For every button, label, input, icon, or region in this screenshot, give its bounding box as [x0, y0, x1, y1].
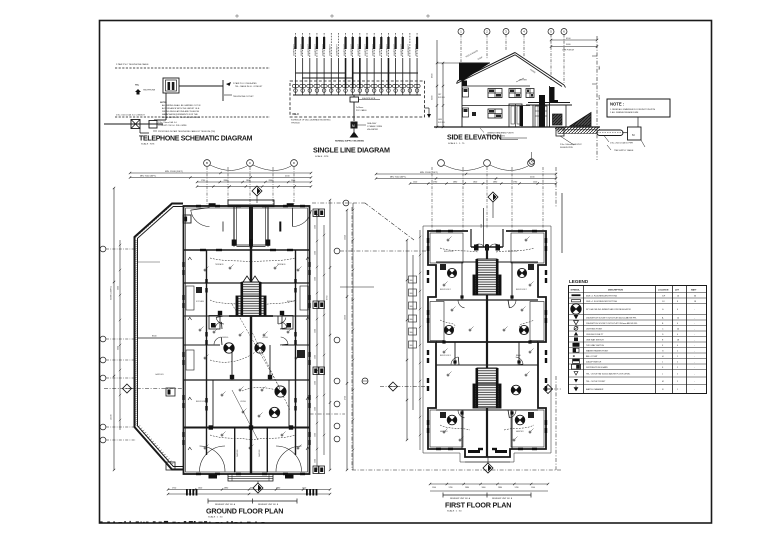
- svg-text:BEDROOM: BEDROOM: [196, 401, 206, 403]
- svg-text:MIN. 15240 (50FT.): MIN. 15240 (50FT.): [165, 171, 183, 173]
- svg-text:MIN. 15240 (50FT.): MIN. 15240 (50FT.): [420, 172, 438, 174]
- incoming supply black triangle: [350, 132, 359, 138]
- svg-text:ALL WIRING SHALL BE CARRIED OU: ALL WIRING SHALL BE CARRIED OUT IN: [162, 104, 201, 107]
- svg-text:TEL. CABLE IN G.I. CONDUIT: TEL. CABLE IN G.I. CONDUIT: [235, 85, 263, 88]
- svg-text:1780: 1780: [449, 487, 453, 489]
- svg-text:2880: 2880: [465, 487, 469, 489]
- svg-text:B: B: [206, 161, 208, 165]
- gf exterior window dark ticks: [182, 262, 184, 267]
- gf section circle marker: [362, 378, 368, 384]
- svg-text:1500: 1500: [432, 487, 436, 489]
- supply leader texts: [604, 136, 609, 143]
- svg-text:100A 240V: 100A 240V: [367, 122, 377, 125]
- wire DP to riser drop: [139, 129, 141, 134]
- svg-text:SCALE : NTS: SCALE : NTS: [315, 155, 329, 158]
- svg-text:SCALE : 1 : 50: SCALE : 1 : 50: [208, 516, 223, 519]
- supply capsule conduit: [597, 130, 623, 136]
- svg-text:2: 2: [677, 381, 678, 383]
- svg-text:SCHEDULE OF DB-C (SURFACE MOUN: SCHEDULE OF DB-C (SURFACE MOUNTED): [291, 119, 331, 122]
- svg-text:kWh METER: kWh METER: [367, 129, 379, 131]
- 2nd storey windows: [488, 89, 502, 98]
- ff bottom bracket lines: [443, 494, 531, 496]
- svg-text:2: 2: [677, 361, 678, 363]
- svg-text:1800: 1800: [473, 181, 477, 183]
- svg-text:1500: 1500: [533, 181, 537, 183]
- svg-text:40A DPN MCB: 40A DPN MCB: [362, 97, 376, 100]
- svg-text:6: 6: [677, 323, 678, 325]
- svg-text:TWO WAY SWITCH: TWO WAY SWITCH: [586, 344, 605, 347]
- elevation ground line: [434, 126, 600, 128]
- meter panel box: [628, 127, 642, 140]
- svg-text:DESCRIPTION: DESCRIPTION: [608, 290, 623, 292]
- gf left section diamond: [123, 384, 132, 393]
- svg-text:1780: 1780: [201, 180, 205, 182]
- gf kitchen fixtures left: [186, 286, 194, 310]
- incoming telephone line wire: [104, 123, 163, 125]
- gf interior door frame blobs: [209, 425, 213, 429]
- gf bathrooms beside stairs: [209, 316, 220, 330]
- svg-text:NORMAL SUPPLY INCOMING: NORMAL SUPPLY INCOMING: [335, 140, 364, 143]
- svg-text:1500: 1500: [302, 487, 306, 489]
- svg-text:1500: 1500: [315, 251, 317, 255]
- svg-text:CAR PORCH: CAR PORCH: [562, 49, 575, 52]
- svg-text:6: 6: [677, 309, 678, 311]
- gf bottom dimension lines: [168, 489, 330, 491]
- ff left section diamond: [389, 382, 398, 391]
- svg-text:1750: 1750: [172, 487, 176, 489]
- svg-text:MASTER: MASTER: [516, 430, 524, 433]
- svg-text:1800: 1800: [482, 487, 486, 489]
- svg-text:RESIDENT UNIT NO. B: RESIDENT UNIT NO. B: [258, 504, 279, 506]
- ff wiring dashed runs: [440, 248, 478, 252]
- svg-text:LIVING: LIVING: [262, 337, 268, 339]
- ff interior door arcs: [458, 300, 465, 308]
- svg-text:TELEPHONE SCHEMATIC DIAGRAM: TELEPHONE SCHEMATIC DIAGRAM: [139, 136, 253, 143]
- svg-text:GROUND FLOOR PLAN: GROUND FLOOR PLAN: [206, 507, 283, 516]
- svg-text:CEILING ROSE PT: CEILING ROSE PT: [586, 334, 604, 336]
- svg-text:DINING: DINING: [222, 337, 229, 339]
- svg-text:BEDROOM 3: BEDROOM 3: [440, 355, 451, 357]
- svg-text:LIGHTING PT: LIGHTING PT: [329, 43, 331, 56]
- svg-text:L: L: [662, 373, 663, 375]
- gf diagonal cable runs: [232, 304, 280, 388]
- gf garden boundary wall: [135, 204, 184, 470]
- svg-text:2. ALL DIMENSIONS ARE IN MM: 2. ALL DIMENSIONS ARE IN MM: [610, 111, 639, 114]
- roof dark gable fill: [459, 63, 490, 81]
- svg-text:NOTE :: NOTE :: [610, 102, 624, 107]
- telephone junction box: [163, 78, 179, 93]
- main switch wire down: [353, 102, 355, 121]
- ff door frame blobs: [460, 295, 463, 298]
- svg-text:1 No. 25mm DIA G.I PIPE: 1 No. 25mm DIA G.I PIPE: [610, 142, 634, 145]
- svg-text:2x16mm: 2x16mm: [356, 107, 364, 109]
- svg-text:BEDROOM: BEDROOM: [444, 251, 454, 253]
- svg-text:1500: 1500: [315, 459, 317, 463]
- gf wiring texture tiny symbols: [204, 269, 206, 271]
- ff party wall: [486, 244, 488, 457]
- wire note box to meter box: [637, 117, 639, 127]
- svg-text:2: 2: [677, 367, 678, 369]
- busbar: [293, 94, 421, 96]
- ff top grid bubbles: [438, 160, 445, 167]
- svg-text:1500: 1500: [531, 487, 535, 489]
- gf right dimension line: [329, 200, 331, 470]
- svg-text:ACCORDANCE WITH THE LATEST I.E: ACCORDANCE WITH THE LATEST I.E.E.: [162, 107, 200, 110]
- svg-text:2: 2: [677, 356, 678, 358]
- svg-text:SLEEVE PIPE: SLEEVE PIPE: [560, 147, 574, 149]
- ff stair core lower: [477, 368, 497, 384]
- eave bracket left: [462, 81, 467, 87]
- svg-text:PROPOSED 20 PAIR TELEPHONE CAB: PROPOSED 20 PAIR TELEPHONE CABLE BY TELE…: [158, 130, 215, 133]
- svg-text:1780: 1780: [433, 181, 437, 183]
- svg-text:WIRING REGULATIONS AND TELEKOM: WIRING REGULATIONS AND TELEKOM: [162, 110, 199, 113]
- gf wiring dashed runs: [210, 258, 251, 262]
- svg-text:18: 18: [677, 339, 679, 341]
- svg-text:PVC CABLE: PVC CABLE: [356, 109, 367, 112]
- svg-text:TEL. OUTLET POINT: TEL. OUTLET POINT: [586, 381, 606, 383]
- svg-text:TERRACE: TERRACE: [215, 263, 224, 266]
- main door: [509, 104, 522, 127]
- arrow to TBB with note text: [226, 82, 231, 86]
- gf north diamond symbol: [252, 186, 262, 196]
- right vertical boundary dash line: [596, 36, 598, 160]
- db dashed enclosure DB-C: [290, 81, 425, 117]
- svg-text:5000: 5000: [118, 286, 120, 290]
- gf interior door arcs: [216, 317, 224, 324]
- svg-text:DB-C: DB-C: [293, 112, 300, 116]
- svg-text:M: M: [352, 124, 355, 128]
- svg-text:EARTH CHAMBER: EARTH CHAMBER: [586, 388, 604, 391]
- svg-text:GRD: GRD: [438, 119, 443, 121]
- svg-text:1 PHASE 2 WIRE: 1 PHASE 2 WIRE: [367, 125, 383, 128]
- svg-text:13A SWITCH SOCKET OUTLET AT 13: 13A SWITCH SOCKET OUTLET AT 1350mm ABOVE…: [586, 322, 639, 325]
- ground hatch under elevation: [555, 127, 600, 131]
- ff interior vertical walls: [461, 262, 463, 300]
- earth arrow right side: [425, 107, 430, 109]
- telephone riser line: [222, 80, 224, 101]
- svg-text:GARDEN: GARDEN: [236, 449, 239, 457]
- ff bottom dimension lines: [430, 483, 548, 485]
- ff right section diamond: [544, 385, 553, 394]
- svg-text:GARDEN: GARDEN: [155, 373, 164, 376]
- svg-text:SINGLE LINE DIAGRAM: SINGLE LINE DIAGRAM: [313, 146, 390, 155]
- svg-text:2880: 2880: [224, 180, 228, 182]
- svg-text:GARDEN: GARDEN: [258, 449, 261, 457]
- roof: [458, 53, 516, 82]
- svg-text:MALAYSIA REQUIREMENTS FOR THE: MALAYSIA REQUIREMENTS FOR THE: [162, 113, 198, 116]
- svg-text:SIDE ELEVATION: SIDE ELEVATION: [447, 135, 502, 142]
- main switch rectangle: [353, 95, 355, 97]
- gf top wall dark window blocks: [209, 203, 216, 206]
- gf entrance canopy top: [228, 200, 274, 207]
- wire junction-box down: [165, 93, 167, 120]
- ff building outline with corner wings: [428, 231, 546, 457]
- svg-text:12190: 12190: [111, 414, 113, 420]
- ff grid drop dash lines: [431, 167, 433, 231]
- svg-text:LIGHTING PT: LIGHTING PT: [337, 43, 339, 56]
- svg-text:RESIDENT UNIT NO. A: RESIDENT UNIT NO. A: [450, 497, 471, 500]
- svg-text:8: 8: [677, 301, 678, 303]
- gf grid drop dash lines: [206, 167, 208, 206]
- svg-text:FLR LVL: FLR LVL: [438, 122, 445, 124]
- gf bottom rooms double door arcs: [200, 446, 226, 472]
- mcb rows inside db: [292, 84, 295, 87]
- ff bottom porch dark bars: [468, 450, 480, 453]
- svg-text:TNB SUPPLY CABLE: TNB SUPPLY CABLE: [614, 149, 634, 152]
- ff roof overhang thin outline: [423, 226, 551, 462]
- svg-text:ONE WAY SWITCH: ONE WAY SWITCH: [586, 338, 604, 341]
- svg-text:1: 1: [677, 389, 678, 391]
- svg-text:1500: 1500: [315, 407, 317, 411]
- svg-text:300: 300: [410, 332, 413, 334]
- gf mid fence line: [138, 337, 184, 339]
- svg-text:1500: 1500: [315, 277, 317, 281]
- svg-text:300: 300: [410, 345, 413, 347]
- gf bottom porch steps: [228, 474, 273, 481]
- svg-text:DISTRIBUTION BOARD: DISTRIBUTION BOARD: [586, 366, 608, 369]
- single line diagram: feeder circuits group: [295, 33, 297, 58]
- gf top dimension lines: [130, 172, 311, 174]
- svg-text:1600: 1600: [198, 487, 202, 489]
- ff center section leader line: [483, 208, 485, 247]
- gf party wall center: [250, 206, 252, 474]
- svg-text:SCALE 1 : 1 : 75: SCALE 1 : 1 : 75: [448, 142, 465, 145]
- gf lobby corridor walls: [233, 207, 235, 247]
- svg-text:1500: 1500: [315, 381, 317, 385]
- svg-text:4720: 4720: [345, 396, 347, 400]
- svg-text:LIVING: LIVING: [240, 401, 246, 403]
- svg-text:NOTE :: NOTE :: [160, 102, 167, 104]
- porch left dark post: [520, 106, 524, 126]
- svg-text:SYMBOL: SYMBOL: [571, 290, 581, 292]
- ground hatched strip right: [570, 113, 591, 127]
- svg-text:36: 36: [694, 295, 696, 297]
- svg-text:INSTALLATION OF TELEPHONE WIRI: INSTALLATION OF TELEPHONE WIRING: [162, 116, 200, 119]
- svg-text:TEL: TEL: [135, 85, 140, 87]
- gf bottom wall windows: [209, 474, 218, 478]
- porch dark column: [539, 95, 545, 127]
- 1st storey window: [488, 109, 502, 118]
- svg-text:MIN. 9140 (30FT.): MIN. 9140 (30FT.): [140, 175, 156, 177]
- ground floor: top grid bubbles: [204, 160, 211, 167]
- svg-text:1500: 1500: [315, 355, 317, 359]
- svg-text:1500: 1500: [315, 303, 317, 307]
- svg-text:36W x 1 FLUORESCENT FITTING: 36W x 1 FLUORESCENT FITTING: [586, 295, 618, 297]
- gf right grid bubbles: [334, 248, 340, 254]
- svg-text:MIN. 9140 (30FT.): MIN. 9140 (30FT.): [390, 176, 406, 178]
- svg-text:SCALE : 1 : 50: SCALE : 1 : 50: [447, 510, 462, 513]
- gf right side wall labels: [313, 209, 319, 217]
- svg-text:1500: 1500: [413, 181, 417, 183]
- scan dirt bottom edge: [100, 521, 103, 522]
- feeder tie bars: [296, 72, 346, 74]
- svg-text:2880: 2880: [493, 181, 497, 183]
- house outline left wall: [461, 63, 463, 127]
- ff ceiling fans: [447, 268, 456, 277]
- gf terrace inner wall bar: [279, 222, 281, 232]
- svg-text:FIRST FLOOR PLAN: FIRST FLOOR PLAN: [445, 501, 511, 510]
- svg-text:BEDROOM 2: BEDROOM 2: [516, 289, 527, 291]
- telephone lower dashed boundary line: [115, 116, 270, 118]
- svg-text:WATER HEATER POINT: WATER HEATER POINT: [586, 349, 609, 352]
- svg-text:2: 2: [677, 373, 678, 375]
- svg-text:3000: 3000: [118, 346, 120, 350]
- ff exterior window dark ticks: [427, 238, 429, 243]
- ff bath fixtures: [440, 264, 446, 270]
- NOTE box: [607, 99, 670, 117]
- svg-text:20A DP SWITCH: 20A DP SWITCH: [586, 360, 602, 363]
- svg-text:10520: 10520: [345, 315, 347, 320]
- svg-text:2 PAIR P.V.C. INSULATED: 2 PAIR P.V.C. INSULATED: [233, 82, 257, 85]
- svg-text:1800: 1800: [246, 180, 250, 182]
- svg-text:1. REFER ALL DRAWINGS IN CONJU: 1. REFER ALL DRAWINGS IN CONJUNCTION WIT…: [610, 108, 656, 111]
- svg-text:J: J: [662, 361, 663, 363]
- ff left dim stack with labels: [406, 240, 408, 440]
- border frame: [100, 21, 712, 524]
- svg-text:1780: 1780: [515, 487, 519, 489]
- svg-text:300: 300: [410, 293, 413, 295]
- svg-text:BEDROOM 2: BEDROOM 2: [440, 289, 451, 291]
- svg-text:BEDROOM: BEDROOM: [287, 301, 297, 303]
- meter leader text: [358, 124, 367, 126]
- svg-text:FLR LVL: FLR LVL: [438, 97, 445, 99]
- svg-text:2880: 2880: [269, 180, 273, 182]
- svg-text:2880: 2880: [498, 487, 502, 489]
- svg-text:RESIDENT UNIT NO. A: RESIDENT UNIT NO. A: [215, 503, 236, 506]
- svg-text:BELL POINT: BELL POINT: [586, 356, 598, 358]
- crossed junction box: [131, 120, 140, 129]
- gf bottom diamond: [253, 483, 263, 493]
- wire capsule to meter box: [623, 132, 628, 134]
- margin specks: [236, 15, 238, 17]
- hatched service trench: [558, 130, 597, 134]
- gf left dimension line: [113, 188, 115, 470]
- svg-text:13A SWITCH SOCKET OUTLET AT 30: 13A SWITCH SOCKET OUTLET AT 300mm ABOVE …: [586, 316, 637, 319]
- svg-text:4: 4: [677, 345, 678, 347]
- gf top door arcs: [191, 210, 210, 226]
- svg-text:2 PAIR P.V.C TELEPHONE CABLE: 2 PAIR P.V.C TELEPHONE CABLE: [116, 63, 149, 66]
- svg-text:BEDROOM: BEDROOM: [508, 251, 518, 253]
- svg-text:LIGHTING PT: LIGHTING PT: [408, 43, 410, 56]
- svg-text:18: 18: [694, 301, 696, 303]
- gf stair core: [242, 282, 260, 296]
- svg-text:14: 14: [677, 317, 679, 319]
- porch plinth crosshatch block: [553, 114, 563, 125]
- svg-text:4: 4: [677, 334, 678, 336]
- ff left boundary dim line and bubble: [346, 210, 348, 470]
- svg-text:LIGHTING POINT: LIGHTING POINT: [586, 328, 603, 330]
- svg-text:2 No. 100mm DIA UPVC: 2 No. 100mm DIA UPVC: [560, 143, 582, 146]
- svg-text:15240: 15240: [345, 235, 347, 240]
- legend symbol glyphs: [572, 294, 581, 296]
- ff top dimension lines: [376, 173, 556, 175]
- gf interior horizontal walls: [184, 282, 310, 284]
- legend table frame: [569, 286, 707, 394]
- svg-text:BATH: BATH: [516, 354, 521, 357]
- kWh meter black square: [351, 122, 358, 129]
- right wall dark vent: [550, 87, 555, 100]
- svg-text:GATE: GATE: [598, 94, 601, 100]
- svg-text:TELEPHONE: TELEPHONE: [143, 90, 156, 92]
- svg-text:1 No. 15mm DIA. G.I.: 1 No. 15mm DIA. G.I.: [158, 121, 178, 124]
- svg-text:2880: 2880: [224, 487, 228, 489]
- svg-text:TPN MCB: TPN MCB: [291, 123, 300, 125]
- svg-text:300: 300: [410, 319, 413, 321]
- ff stair core upper: [477, 259, 497, 275]
- gf building outer walls: [184, 206, 310, 474]
- gf bottom bracket line: [208, 500, 297, 502]
- svg-text:1500: 1500: [291, 180, 295, 182]
- gf top porch recess walls: [184, 249, 310, 251]
- ff wing inner borders: [430, 233, 463, 263]
- svg-text:1780: 1780: [513, 181, 517, 183]
- gf ceiling fans: [255, 343, 265, 353]
- svg-text:300: 300: [410, 306, 413, 308]
- ff interior horizontal walls: [436, 261, 538, 263]
- svg-text:CONDUIT C/W G.I. PULL WIRE: CONDUIT C/W G.I. PULL WIRE: [158, 125, 187, 127]
- ff top center recessed entry: [468, 229, 506, 247]
- left dimension column: [436, 40, 438, 127]
- gf left grid bubbles: [100, 246, 106, 252]
- gf right dim text column: [352, 203, 354, 470]
- svg-text:1500: 1500: [315, 433, 317, 437]
- svg-text:2880: 2880: [276, 487, 280, 489]
- svg-text:24: 24: [677, 328, 679, 330]
- gf bath fixtures right: [300, 286, 308, 310]
- side elevation: grid bubbles: [458, 29, 464, 35]
- svg-text:1500: 1500: [315, 225, 317, 229]
- svg-text:30480 (100FT.): 30480 (100FT.): [111, 286, 113, 300]
- wire junction-box to riser: [179, 85, 223, 87]
- small distribution point box DP: [149, 121, 157, 129]
- svg-text:1500: 1500: [315, 329, 317, 333]
- gf switch socket ticks inner walls: [188, 257, 192, 260]
- ff north diamond: [488, 192, 498, 202]
- gf interior vertical walls: [234, 428, 236, 473]
- svg-text:18W x 1 FLUORESCENT FITTING: 18W x 1 FLUORESCENT FITTING: [586, 301, 618, 303]
- svg-text:TELEPHONE OUTLET: TELEPHONE OUTLET: [233, 96, 254, 98]
- right dimension lines: [551, 39, 597, 41]
- ff wiring texture tiny symbols: [447, 239, 449, 241]
- svg-text:TEL. OUTLET AT 300mm ABOVE FLO: TEL. OUTLET AT 300mm ABOVE FLOOR LEVEL: [586, 372, 631, 375]
- svg-text:56″ DIA CEILING SWEEP FAN C/W: 56″ DIA CEILING SWEEP FAN C/W REGULATOR: [586, 308, 631, 311]
- svg-text:RESIDENT UNIT NO. B: RESIDENT UNIT NO. B: [492, 498, 513, 500]
- svg-text:300: 300: [410, 280, 413, 282]
- svg-text:2 No. 15mm DIA. G.I. CONDUIT: 2 No. 15mm DIA. G.I. CONDUIT: [116, 114, 146, 117]
- porch door frame: [535, 106, 547, 127]
- svg-text:TERRACE: TERRACE: [277, 263, 286, 266]
- porch column circle marker: [529, 159, 535, 165]
- svg-text:QTY: QTY: [675, 290, 680, 292]
- telephone schematic: upper boundary dashed line: [115, 67, 270, 69]
- first floor line: [462, 85, 530, 87]
- svg-text:WATT: WATT: [691, 289, 697, 292]
- gf dim end tick clusters: [186, 489, 188, 496]
- service pit box below ground: [556, 128, 564, 136]
- svg-text:KITCHEN: KITCHEN: [196, 301, 205, 303]
- svg-text:2: 2: [677, 350, 678, 352]
- svg-text:MASTER: MASTER: [440, 430, 448, 433]
- svg-text:1500: 1500: [481, 224, 483, 228]
- ff lot boundary dash lines: [351, 207, 353, 470]
- svg-text:LEGEND: LEGEND: [569, 279, 589, 284]
- svg-text:2880: 2880: [453, 181, 457, 183]
- gf stair bottom landing wall: [229, 315, 273, 317]
- ff bottom diamond: [483, 463, 493, 473]
- small left window marks: [463, 88, 469, 97]
- car porch flat roof: [528, 102, 570, 104]
- svg-text:2440: 2440: [599, 66, 601, 70]
